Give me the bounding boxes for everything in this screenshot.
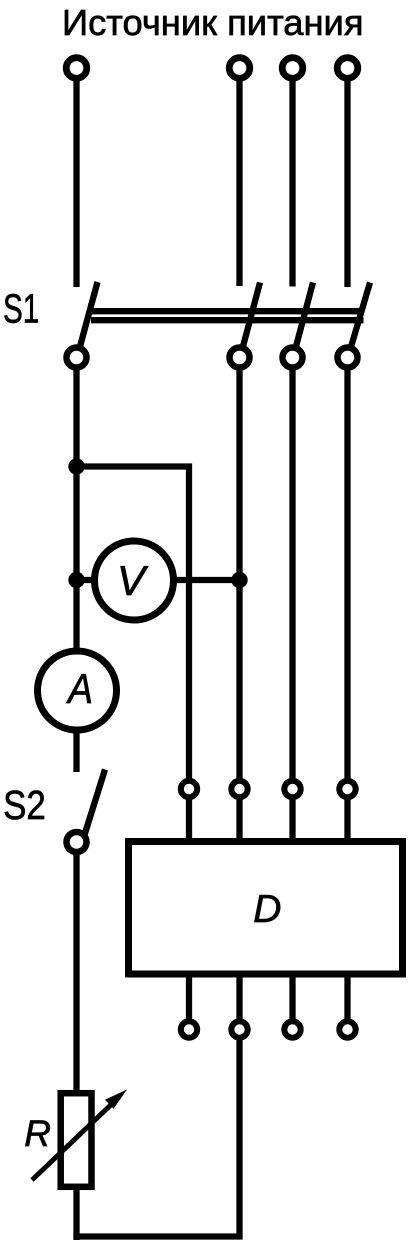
supply terminal 1 xyxy=(66,58,87,79)
D output terminal 2 xyxy=(231,1021,247,1037)
voltmeter U1 circle xyxy=(95,541,174,620)
D input terminal 1 xyxy=(181,781,197,797)
wire D output stub 4 xyxy=(344,974,350,1030)
wire voltmeter branch corner to D terminal xyxy=(77,467,190,842)
switch S1 blade pole 4 xyxy=(350,283,371,353)
wire S1 pole 4 down to box D terminal xyxy=(344,358,350,842)
switch S1 blade pole 1 xyxy=(79,282,98,352)
supply terminal 2 xyxy=(229,58,250,79)
S1 contact 2 xyxy=(230,348,250,368)
switch S1 blade pole 3 xyxy=(295,283,314,353)
svg-text:S1: S1 xyxy=(3,286,39,332)
wire voltmeter row xyxy=(77,577,240,583)
box D xyxy=(129,842,403,975)
wire phase 4 feed from supply terminal to S1 xyxy=(344,68,350,287)
wire phase 3 feed from supply terminal to S1 xyxy=(289,68,295,287)
switch S2 blade xyxy=(81,770,105,847)
svg-text:R: R xyxy=(24,1113,51,1154)
svg-text:S2: S2 xyxy=(3,782,46,828)
S2 contact xyxy=(67,832,87,852)
node junction dot left top xyxy=(68,458,84,474)
wire phase 1 feed from supply terminal to S1 xyxy=(73,68,79,287)
D input terminal 4 xyxy=(339,781,355,797)
svg-text:D: D xyxy=(253,888,281,931)
D output terminal 1 xyxy=(181,1021,197,1037)
svg-text:Источник питания: Источник питания xyxy=(62,2,364,43)
S1 contact 1 xyxy=(67,348,87,368)
node junction dot left voltmeter xyxy=(68,572,84,588)
D output terminal 3 xyxy=(284,1021,300,1037)
wire S1 pole 1 down to junction/V/A chain xyxy=(73,358,79,773)
node junction dot right voltmeter xyxy=(231,572,247,588)
resistor R body xyxy=(61,1093,92,1187)
supply terminal 4 xyxy=(337,58,358,79)
resistor R variable arrow shaft xyxy=(32,1099,117,1180)
svg-text:A: A xyxy=(65,665,93,712)
wire S2 to resistor R xyxy=(73,842,79,1240)
D input terminal 3 xyxy=(284,781,300,797)
D output terminal 4 xyxy=(339,1021,355,1037)
wire D output stub 1 xyxy=(186,974,192,1030)
switch S1 linkage bar (double line) xyxy=(91,311,364,320)
wire D output stub 2 xyxy=(236,974,242,1030)
wire bottom return from R to D output xyxy=(77,1030,240,1237)
wire S1 pole 2 down to box D terminal xyxy=(236,358,242,842)
svg-text:V: V xyxy=(117,557,149,604)
wire D output stub 3 xyxy=(289,974,295,1030)
S1 contact 4 xyxy=(338,348,358,368)
wire S1 pole 3 down to box D terminal xyxy=(289,358,295,842)
S1 contact 3 xyxy=(283,348,303,368)
supply terminal 3 xyxy=(282,58,303,79)
switch S1 blade pole 2 xyxy=(242,283,261,353)
resistor R arrowhead xyxy=(105,1090,127,1109)
D input terminal 2 xyxy=(231,781,247,797)
wire phase 2 feed from supply terminal to S1 xyxy=(236,68,242,286)
ammeter U2 circle xyxy=(38,651,117,730)
